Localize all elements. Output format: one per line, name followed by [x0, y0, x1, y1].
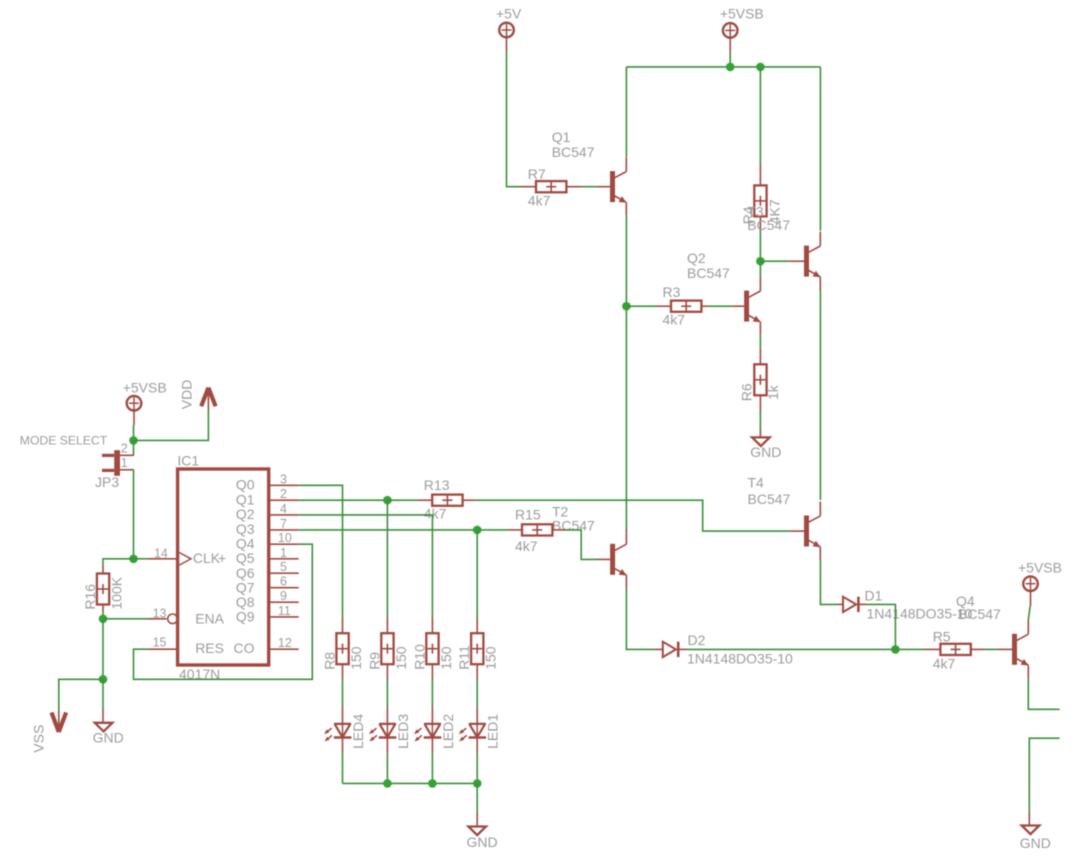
pin 7 (Q3) [269, 517, 299, 531]
svg-text:Q1: Q1 [552, 129, 571, 145]
svg-text:1k: 1k [765, 384, 781, 400]
junction D1/D2/R5 node [891, 645, 900, 654]
supply +5V [496, 5, 522, 52]
resistor R7 [520, 181, 582, 192]
wire junction to T3 base [760, 260, 789, 262]
wire +5V to R7 [507, 52, 521, 187]
wire R11 column [476, 530, 478, 618]
svg-text:VDD: VDD [179, 380, 195, 410]
diode D2 [655, 642, 687, 657]
wire +5VSB left stem [133, 425, 135, 440]
wire R16 to ENA junction [102, 612, 104, 619]
resistor R5 [926, 644, 985, 655]
svg-text:GND: GND [750, 444, 781, 460]
svg-text:100K: 100K [109, 576, 125, 609]
resistor R8 [336, 618, 348, 679]
wire junction to R3 [626, 305, 656, 307]
wire junction to VSS [59, 679, 103, 710]
svg-text:D1: D1 [865, 588, 883, 604]
ground below LEDs [467, 812, 498, 850]
svg-text:1: 1 [121, 456, 128, 470]
wire junction down to Q2 collector [759, 261, 761, 277]
transistor T3 [790, 232, 821, 291]
svg-text:2: 2 [121, 442, 128, 456]
wire junction down to GND [102, 679, 104, 709]
svg-text:R13: R13 [424, 477, 450, 493]
svg-text:VSS: VSS [31, 725, 47, 753]
diode D1 [837, 597, 867, 612]
supply +5VSB left [123, 379, 167, 425]
LED LED4 [324, 707, 351, 753]
wire rail down to R4 [759, 67, 761, 164]
svg-text:R5: R5 [933, 629, 951, 645]
junction bus LED3 [383, 779, 392, 788]
svg-text:Q1: Q1 [236, 492, 255, 508]
svg-text:4k7: 4k7 [515, 538, 538, 554]
wire bus down to GND [476, 783, 478, 812]
wire R3 to Q2 base [708, 305, 732, 307]
wire R9 to LED3 [386, 679, 388, 707]
wire R4 to junction [759, 231, 761, 262]
svg-text:11: 11 [278, 604, 291, 618]
wire Q1 output Q1 pin to R13 [299, 499, 388, 501]
svg-text:IC1: IC1 [177, 453, 199, 469]
wire +5VSB to Q4 collector [1028, 606, 1030, 620]
svg-text:Q5: Q5 [236, 550, 255, 566]
wire junction to R13 [387, 499, 417, 501]
svg-text:R6: R6 [739, 383, 755, 401]
svg-text:4k7: 4k7 [424, 505, 447, 521]
wire R10 to LED2 [431, 679, 433, 707]
wire R13 to T4 base [476, 500, 790, 531]
svg-text:+5V: +5V [496, 5, 522, 21]
svg-text:4k7: 4k7 [663, 311, 686, 327]
wire R11 to LED1 [476, 679, 478, 707]
pin 11 (Q9) [269, 604, 299, 618]
wire T4 emitter down to D1 [820, 560, 837, 604]
wire R9 column [386, 500, 388, 618]
wire top rail [626, 66, 820, 68]
junction Q1 emitter / R3 [622, 302, 631, 311]
wire junction down to VSS/GND [102, 619, 104, 680]
svg-text:13: 13 [153, 606, 167, 620]
svg-text:Q3: Q3 [236, 521, 255, 537]
resistor R13 [418, 495, 477, 506]
svg-text:150: 150 [438, 646, 454, 670]
supply +5VSB top [720, 5, 764, 52]
wire return from right edge to GND [1029, 738, 1059, 812]
resistor R3 [657, 301, 709, 312]
wire junction to ENA pin [103, 618, 148, 620]
junction VSS / GND [99, 675, 108, 684]
svg-text:Q6: Q6 [236, 565, 255, 581]
svg-text:Q4: Q4 [236, 536, 255, 552]
svg-text:R16: R16 [82, 584, 98, 610]
ground bottom right [1020, 812, 1051, 851]
svg-text:GND: GND [93, 729, 124, 745]
jumper JP3 [102, 450, 134, 476]
svg-text:ENA: ENA [195, 610, 224, 626]
svg-text:BC547: BC547 [552, 517, 595, 533]
svg-text:+5VSB: +5VSB [720, 5, 764, 21]
svg-text:LED4: LED4 [350, 714, 366, 749]
svg-text:2: 2 [280, 487, 287, 501]
svg-text:GND: GND [467, 834, 498, 850]
wire junction down to JP3 pin 2 [133, 440, 135, 455]
pin 5 (Q6) [269, 560, 299, 574]
resistor R4 [754, 164, 766, 231]
svg-text:3: 3 [280, 472, 287, 486]
junction +5VSB / VDD / JP3 [129, 436, 138, 445]
wire R7 to Q1 base [582, 186, 598, 188]
wire Q2 pin to R10 column [299, 515, 433, 618]
wire junction left to R16 [103, 559, 134, 565]
wire LED3 cathode to bus [386, 753, 388, 783]
resistor R9 [381, 618, 393, 679]
wire +5VSB stem to rail [729, 52, 731, 67]
svg-text:1: 1 [280, 546, 287, 560]
junction bus LED1 [473, 779, 482, 788]
ground below R16 [93, 709, 124, 745]
svg-text:BC547: BC547 [748, 491, 791, 507]
resistor R15 [508, 524, 566, 535]
IC IC1 4017N [177, 453, 268, 682]
svg-text:Q2: Q2 [236, 506, 255, 522]
LED LED3 [369, 707, 396, 753]
wire LED cathodes to bus [342, 753, 344, 783]
pin 6 (Q7) [269, 575, 299, 589]
wire R8 to LED4 [342, 679, 344, 707]
svg-text:D2: D2 [688, 632, 706, 648]
svg-text:BC547: BC547 [552, 144, 595, 160]
svg-text:RES: RES [195, 640, 224, 656]
wire rail down to T3 collector [819, 67, 821, 231]
pin 2 (Q1) [269, 487, 299, 501]
wire junction to CLK pin [134, 558, 148, 560]
svg-text:R15: R15 [515, 507, 541, 523]
svg-text:9: 9 [280, 589, 287, 603]
wire rail down to Q1 collector [625, 67, 627, 157]
transistor T4 [790, 502, 821, 561]
svg-text:Q0: Q0 [236, 477, 255, 493]
junction Q1 column / R13 [383, 496, 392, 505]
svg-text:MODE SELECT: MODE SELECT [20, 433, 108, 447]
svg-text:JP3: JP3 [95, 474, 119, 490]
resistor R16 [97, 565, 109, 612]
ground below R6 [750, 430, 781, 460]
transistor Q4 [998, 620, 1029, 679]
LED LED1 [459, 707, 486, 753]
pin 9 (Q8) [269, 589, 299, 603]
junction rail at +5VSB [726, 63, 735, 72]
svg-text:Q2: Q2 [687, 250, 706, 266]
wire Q3 pin to R15 [299, 529, 478, 531]
wire Q2 emitter to R6 [759, 335, 761, 349]
wire Q4 pin10 to RES loop [134, 544, 313, 679]
svg-text:Q7: Q7 [236, 579, 255, 595]
wire LED2 cathode to bus [431, 753, 433, 783]
svg-text:BC547: BC547 [958, 606, 1001, 622]
transistor Q2 [732, 277, 761, 336]
wire D2 to R5 [687, 648, 926, 650]
pin 14 (CLK) [148, 546, 178, 560]
svg-text:+5VSB: +5VSB [123, 379, 167, 395]
wire JP3 pin 1 down to CLK [133, 470, 135, 559]
resistor R6 [754, 349, 766, 411]
svg-text:R3: R3 [663, 284, 681, 300]
junction rail at R4 branch [756, 63, 765, 72]
svg-text:+5VSB: +5VSB [1018, 560, 1062, 576]
pin 13 (ENA) [148, 606, 167, 620]
wire R5 to Q4 base [985, 648, 998, 650]
junction R4 / T3 base [756, 257, 765, 266]
inversion bubble (ENA) [168, 614, 178, 624]
pin 10 (Q4) [269, 531, 299, 545]
wire LED1 cathode to bus [476, 753, 478, 783]
svg-text:12: 12 [278, 636, 292, 650]
svg-text:4k7: 4k7 [933, 656, 956, 672]
pin 12 (CO) [269, 636, 299, 650]
pin 1 (Q5) [269, 546, 299, 560]
junction Q3 column / R15 [473, 526, 482, 535]
wire T3 emitter down to T4 collector [819, 290, 821, 500]
svg-text:CLK: CLK [193, 550, 221, 566]
svg-text:150: 150 [393, 646, 409, 670]
wire junction to VDD [134, 411, 209, 441]
svg-text:R10: R10 [411, 644, 427, 670]
svg-text:150: 150 [483, 646, 499, 670]
transistor T2 [597, 530, 627, 589]
wire LED ground bus [343, 782, 478, 784]
svg-text:4: 4 [280, 502, 287, 516]
junction bus LED2 [428, 779, 437, 788]
wire T2 emitter down to D2 [626, 588, 655, 649]
wire junction to R15 [477, 529, 508, 531]
svg-text:GND: GND [1020, 835, 1051, 851]
wire Q4 emitter to right edge [1028, 678, 1059, 709]
resistor R11 [471, 618, 483, 679]
pin 4 (Q2) [269, 502, 299, 516]
pin 15 (RES) [148, 636, 178, 650]
svg-text:+: + [218, 550, 226, 566]
LED LED2 [414, 707, 441, 753]
svg-text:14: 14 [154, 546, 168, 560]
wire D1 to node [867, 604, 896, 649]
wire R6 to GND [759, 411, 761, 430]
supply VDD arrow [201, 388, 215, 411]
svg-text:BC547: BC547 [747, 217, 790, 233]
svg-text:15: 15 [153, 636, 167, 650]
svg-text:150: 150 [348, 646, 364, 670]
svg-text:1N4148DO35-10: 1N4148DO35-10 [687, 650, 793, 666]
wire R15 to T2 base [566, 530, 597, 560]
supply +5VSB right [1018, 560, 1062, 606]
junction CLK / R16 [129, 555, 138, 564]
svg-text:6: 6 [280, 575, 287, 589]
svg-text:BC547: BC547 [687, 265, 730, 281]
svg-text:LED3: LED3 [395, 714, 411, 749]
wire Q0 pin to R8 column [299, 485, 343, 618]
svg-text:Q9: Q9 [236, 609, 255, 625]
transistor Q1 [598, 157, 627, 216]
pin 3 (Q0) [269, 472, 299, 486]
svg-text:R7: R7 [528, 166, 546, 182]
supply VSS arrow [52, 710, 67, 732]
wire Q1 emitter down [625, 216, 627, 531]
svg-text:R8: R8 [321, 652, 337, 670]
svg-text:5: 5 [280, 560, 287, 574]
svg-text:LED2: LED2 [440, 714, 456, 749]
svg-text:4k7: 4k7 [528, 193, 551, 209]
svg-text:CO: CO [234, 640, 255, 656]
svg-text:R11: R11 [456, 645, 472, 670]
junction R16 / ENA [99, 615, 108, 624]
svg-text:R9: R9 [366, 652, 382, 670]
svg-text:Q8: Q8 [236, 594, 255, 610]
svg-text:LED1: LED1 [485, 714, 501, 749]
clock wedge (CLK) [179, 553, 191, 566]
svg-text:7: 7 [280, 517, 287, 531]
svg-text:10: 10 [278, 531, 292, 545]
svg-text:T4: T4 [748, 475, 765, 491]
resistor R10 [426, 618, 438, 679]
